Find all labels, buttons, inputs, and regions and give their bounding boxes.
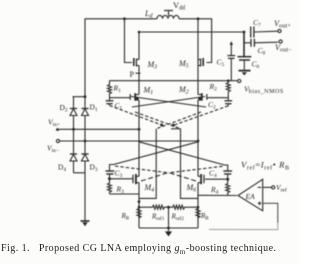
- wire mid cross a: [135, 112, 181, 129]
- arrow Vin+: [56, 128, 59, 131]
- wire left branch column upper: [138, 32, 140, 60]
- node dot Vin+ diode: [72, 128, 75, 131]
- caption: [1, 243, 300, 256]
- wire bias line: [109, 80, 238, 82]
- svg-text:D2: D2: [60, 103, 68, 114]
- transistor M4: [133, 174, 139, 184]
- wire mid-left vertical: [139, 129, 156, 199]
- wire top rail right segment: [179, 19, 212, 63]
- capacitor C8: [244, 39, 278, 47]
- svg-text:C6: C6: [252, 60, 260, 71]
- wire right column lower: [197, 183, 199, 228]
- svg-text:C5: C5: [217, 58, 225, 69]
- node P tick: [136, 72, 141, 74]
- wire mid-right vertical: [181, 129, 199, 199]
- wire M6 gate: [205, 178, 228, 180]
- diode D1: [81, 97, 88, 141]
- inductor Ld: [157, 15, 179, 18]
- wire tent: [141, 173, 196, 182]
- node dot Vin- col: [197, 140, 200, 143]
- svg-text:R2: R2: [209, 82, 218, 93]
- wire Vin-: [60, 140, 199, 142]
- svg-text:D3: D3: [90, 163, 98, 174]
- svg-text:R4: R4: [210, 185, 219, 196]
- svg-text:Rref2: Rref2: [171, 213, 185, 223]
- svg-text:Vout−: Vout−: [275, 43, 292, 54]
- node dot C3: [108, 177, 111, 180]
- node dot M2 gate: [198, 97, 201, 100]
- port Vout- circle: [279, 40, 282, 43]
- resistor R2: [226, 81, 230, 98]
- svg-text:R1: R1: [113, 84, 122, 95]
- transistor M3: [134, 58, 139, 67]
- svg-text:M3: M3: [147, 60, 158, 71]
- transistor M5: [198, 58, 203, 67]
- svg-text:P: P: [130, 70, 135, 79]
- wire upper cross b: [132, 97, 205, 108]
- wire EA minus input: [263, 186, 272, 188]
- node dot Vin+ col: [138, 128, 141, 131]
- svg-text:Vin+: Vin+: [48, 118, 60, 129]
- wire C2 tail: [173, 106, 228, 126]
- diode D3: [81, 141, 88, 173]
- svg-text:C7: C7: [253, 18, 261, 29]
- ground C6: [239, 71, 251, 76]
- capacitor C7: [251, 27, 278, 38]
- svg-text:RB: RB: [200, 212, 209, 222]
- svg-text:M5: M5: [178, 59, 189, 70]
- svg-text:R3: R3: [116, 185, 125, 196]
- resistor R3: [108, 179, 112, 194]
- wire EA plus input: [263, 203, 278, 222]
- transistor M6: [198, 174, 204, 184]
- node dot RB left: [138, 200, 141, 203]
- wire ESD bottom: [74, 172, 86, 174]
- node dot mid right: [172, 124, 175, 127]
- op-amp EA: [238, 179, 263, 211]
- diode D4: [70, 129, 77, 173]
- diode D2: [70, 97, 77, 130]
- svg-text:C8: C8: [258, 46, 266, 57]
- wire right branch column: [197, 19, 199, 95]
- capacitor C6: [238, 57, 252, 70]
- svg-text:Vref: Vref: [276, 183, 287, 194]
- svg-text:Rref1: Rref1: [151, 213, 165, 223]
- wire right column mid: [197, 100, 199, 176]
- svg-text:D1: D1: [90, 103, 98, 114]
- svg-text:Vdd: Vdd: [173, 0, 185, 12]
- svg-text:D4: D4: [58, 163, 66, 174]
- wire plus return faint: [209, 223, 278, 230]
- capacitor C5: [227, 41, 235, 80]
- svg-text:EA: EA: [245, 192, 256, 201]
- node dot right drain: [197, 17, 200, 20]
- wire dash right: [169, 166, 223, 173]
- resistor R4: [226, 179, 230, 195]
- wire C1 tail: [110, 106, 162, 126]
- wire output rail y32: [139, 31, 244, 33]
- svg-text:RB: RB: [121, 212, 130, 222]
- capacitor C4: [223, 171, 232, 179]
- node dot chain right: [197, 206, 200, 209]
- wire R4 bottom to EA: [198, 194, 237, 196]
- node dot mid left: [160, 124, 163, 127]
- wire Vin+: [56, 128, 139, 130]
- wire R3 bottom: [110, 193, 140, 195]
- wire M4 gate: [110, 178, 133, 180]
- svg-text:C2: C2: [208, 100, 216, 111]
- wire left column P segment: [138, 66, 140, 95]
- node dot chain left: [138, 206, 141, 209]
- wire mid link: [171, 128, 181, 130]
- ground ESD: [81, 221, 90, 226]
- capacitor C1: [106, 98, 114, 106]
- transistor M2: [198, 93, 207, 101]
- wire ESD ground stem: [84, 173, 86, 221]
- wire cross low b: [139, 142, 225, 165]
- wire Vdd stub: [168, 11, 170, 16]
- ground main: [165, 228, 172, 237]
- node dot ESD top: [84, 95, 87, 98]
- wire M1 gate: [110, 97, 131, 99]
- wire mid cross b: [156, 112, 201, 129]
- svg-text:M2: M2: [178, 85, 189, 96]
- wire M2 gate: [207, 97, 228, 99]
- node dot chain center: [167, 206, 170, 209]
- wire center ground stem: [168, 207, 170, 228]
- capacitor C2: [224, 98, 232, 106]
- wire cross low a: [114, 142, 199, 165]
- svg-text:M1: M1: [143, 86, 154, 97]
- resistor R1: [108, 81, 112, 98]
- svg-text:C4: C4: [209, 169, 217, 180]
- node dot Vin- diode: [84, 140, 87, 143]
- svg-text:Ld: Ld: [144, 9, 153, 20]
- svg-text:Vin−: Vin−: [47, 144, 59, 155]
- transistor M1: [130, 93, 139, 101]
- capacitor C3: [106, 171, 115, 179]
- wire upper cross a: [131, 97, 206, 108]
- svg-text:Vbias_NMOS: Vbias_NMOS: [244, 85, 284, 96]
- wire left column mid: [138, 100, 140, 176]
- svg-text:Vref=Iref• RB: Vref=Iref• RB: [241, 160, 290, 172]
- svg-text:C3: C3: [115, 169, 123, 180]
- svg-text:Vout+: Vout+: [274, 19, 291, 30]
- port Vbias circle: [238, 79, 241, 82]
- port Vout+ circle: [278, 29, 281, 32]
- node dot left drain: [123, 17, 126, 20]
- wire C3 corner: [110, 165, 114, 171]
- node dot C4: [226, 178, 229, 181]
- wire M3 gate feed: [125, 19, 133, 63]
- wire top rail left segment: [85, 19, 157, 97]
- wire bottom rail: [139, 227, 198, 229]
- node dot M1 gate: [136, 97, 139, 100]
- resistor RB right: [196, 209, 200, 220]
- resistor RB left: [137, 209, 141, 220]
- power Vdd bar: [164, 10, 173, 12]
- resistor Rref1: [139, 205, 169, 209]
- wire ESD top: [73, 96, 86, 98]
- wire left column lower: [138, 183, 140, 228]
- node dot R2 top: [227, 79, 230, 82]
- resistor Rref2: [169, 205, 199, 209]
- svg-text:M4: M4: [144, 183, 155, 194]
- wire C4 corner: [225, 165, 228, 171]
- port Vin- circle: [56, 139, 59, 142]
- svg-text:M6: M6: [186, 183, 197, 194]
- port Vref circle: [272, 186, 275, 189]
- node dot rail2 right end: [243, 31, 246, 34]
- wire C8 column: [243, 32, 245, 56]
- wire dash left: [115, 166, 169, 173]
- node dot bottom center: [167, 227, 170, 230]
- node dot rail2 left end: [138, 31, 141, 34]
